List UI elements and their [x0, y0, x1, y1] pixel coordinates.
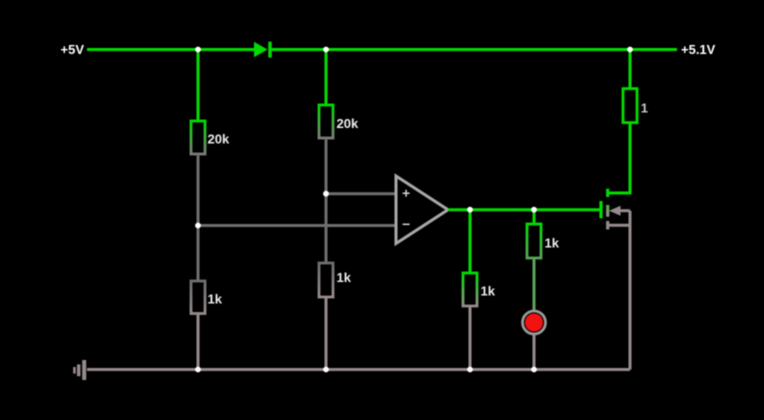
resistor R5 1k: [463, 273, 477, 306]
op-amp U1 plus mark: [403, 190, 410, 197]
MOSFET Q1 source lead: [608, 224, 630, 227]
svg-text:+5.1V: +5.1V: [681, 42, 716, 57]
wire ground rail: [87, 368, 630, 371]
svg-text:20k: 20k: [337, 116, 359, 131]
diode D1 triangle: [254, 42, 268, 57]
wire op-amp noninverting input from node B: [326, 192, 396, 195]
wire output node down to R6: [533, 210, 536, 224]
ground: [74, 360, 84, 380]
svg-text:+5V: +5V: [61, 42, 85, 57]
svg-text:1: 1: [641, 101, 648, 116]
MOSFET Q1 body arrow: [609, 206, 621, 216]
MOSFET Q1 body stub: [606, 205, 609, 211]
diode D1 cathode bar: [268, 42, 271, 58]
LED D2 ring: [523, 311, 546, 334]
wire R7 bottom to MOSFET drain: [608, 123, 630, 193]
wire R1 bottom to node A junction: [197, 154, 200, 226]
wire R6 bottom to LED anode: [533, 258, 536, 311]
wire LED cathode to ground rail: [533, 335, 536, 370]
wire from top rail down to R2: [325, 50, 328, 106]
svg-text:1k: 1k: [545, 236, 560, 251]
wire top rail down to R7: [629, 50, 632, 89]
wire MOSFET source down right side to ground rail: [629, 211, 632, 370]
wire from top rail down to R1: [197, 50, 200, 122]
resistor R1 20k: [191, 121, 205, 154]
LED D2 red body: [525, 314, 543, 332]
wire R4 bottom to ground rail: [325, 297, 328, 370]
svg-text:1k: 1k: [208, 292, 223, 307]
wire node A down to R3: [197, 226, 200, 282]
MOSFET Q1 body lead: [621, 209, 631, 212]
resistor R6 1k: [527, 224, 541, 258]
wire R5 bottom to ground rail: [469, 306, 472, 370]
wire op-amp output to MOSFET gate: [448, 208, 600, 211]
wire output node down to R5: [469, 210, 472, 273]
svg-text:1k: 1k: [337, 270, 352, 285]
MOSFET Q1 drain stub: [606, 189, 609, 197]
wire R3 bottom to ground rail: [197, 314, 200, 370]
resistor R4 1k: [319, 263, 333, 297]
svg-text:20k: 20k: [208, 132, 230, 147]
svg-text:1k: 1k: [481, 284, 496, 299]
wire op-amp inverting input from node A: [198, 224, 396, 227]
wire top rail left segment (+5V to diode anode): [87, 48, 254, 51]
op-amp U1 minus mark: [403, 223, 410, 225]
resistor R2 20k: [319, 105, 333, 138]
resistor R7 value 1: [623, 89, 637, 123]
junction node dots: [195, 47, 633, 373]
MOSFET Q1 source stub: [606, 221, 609, 230]
wire R2 bottom through node B down to R4: [325, 138, 328, 263]
resistor R3 1k: [191, 281, 205, 314]
wire top rail right segment (diode cathode to +5.1V): [272, 48, 677, 51]
MOSFET Q1 gate bar: [599, 201, 602, 218]
op-amp U1 body: [396, 176, 448, 244]
